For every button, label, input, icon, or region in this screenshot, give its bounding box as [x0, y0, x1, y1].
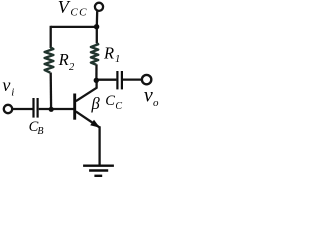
svg-text:v: v	[2, 75, 10, 95]
svg-text:B: B	[37, 126, 43, 137]
svg-text:C: C	[105, 93, 115, 109]
svg-text:R: R	[58, 50, 69, 69]
svg-text:v: v	[144, 84, 153, 106]
svg-text:R: R	[103, 44, 114, 63]
svg-text:β: β	[91, 94, 101, 113]
svg-text:C: C	[115, 101, 122, 112]
svg-text:1: 1	[115, 54, 120, 65]
svg-text:o: o	[153, 97, 159, 109]
svg-text:i: i	[11, 87, 14, 99]
svg-text:CC: CC	[70, 7, 87, 19]
svg-text:2: 2	[69, 62, 75, 73]
